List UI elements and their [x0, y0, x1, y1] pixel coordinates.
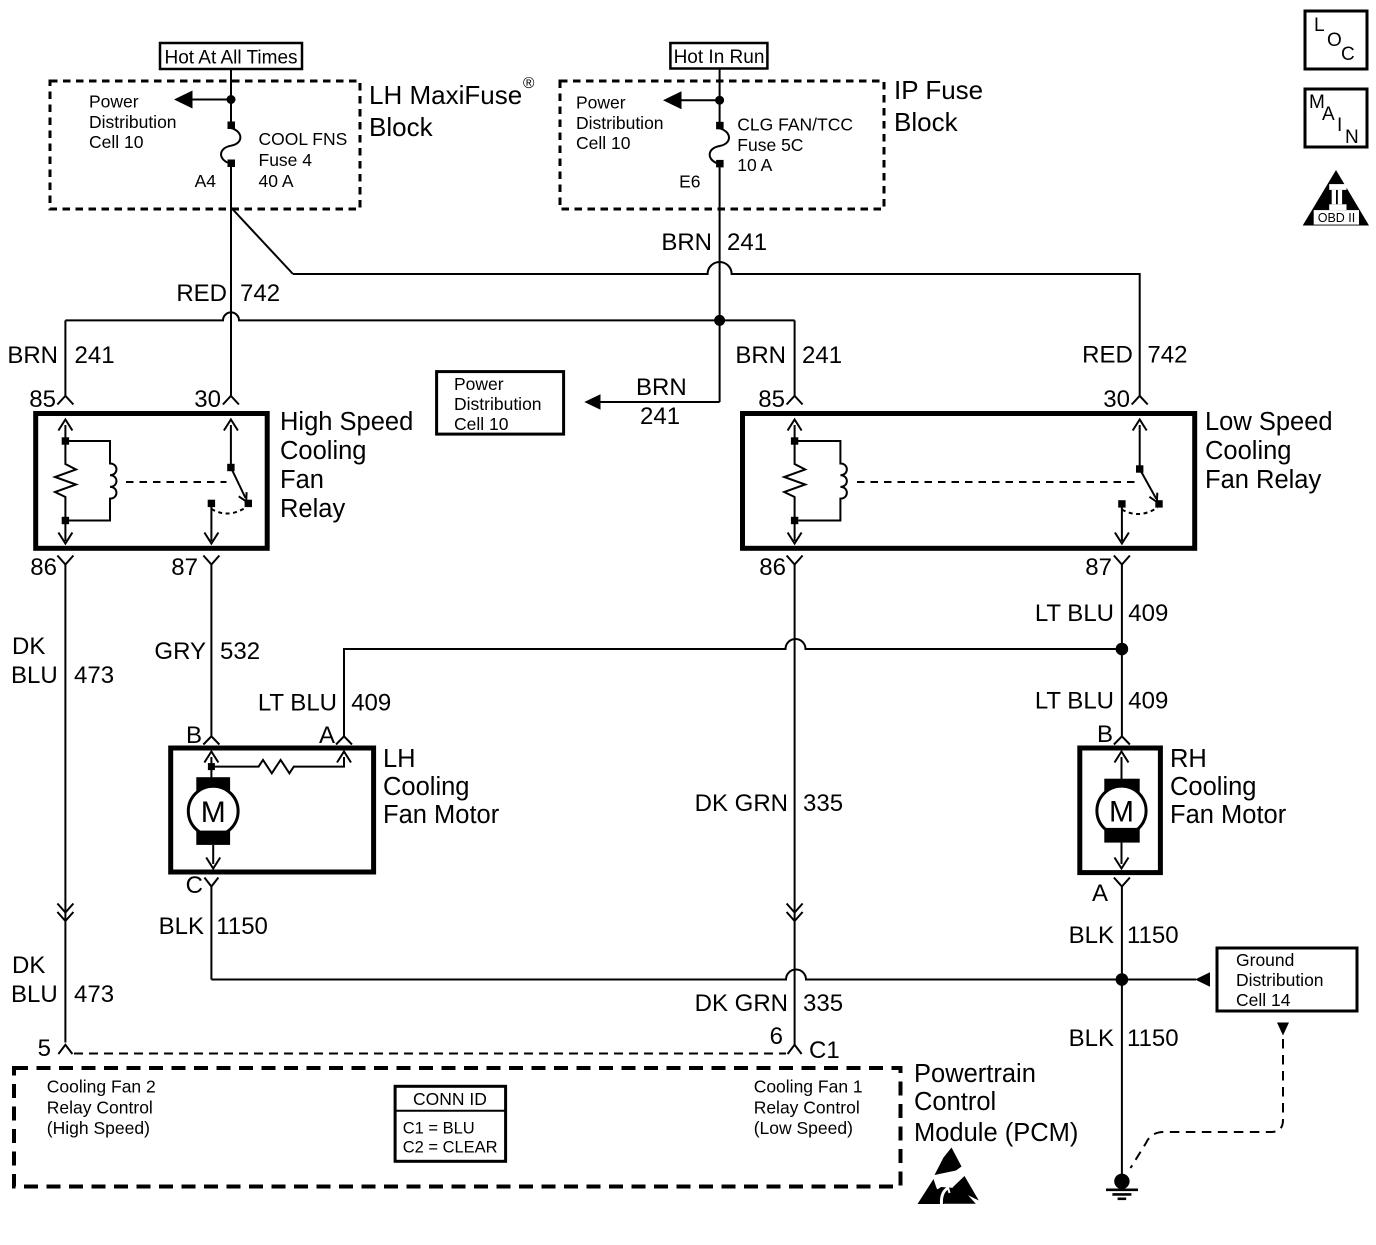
svg-text:Cooling: Cooling [383, 773, 469, 801]
svg-text:Fan Motor: Fan Motor [1170, 801, 1287, 829]
LS relay switch pivot square [1136, 465, 1143, 472]
wire GRY 532 from HS relay pin 87 to LH motor pin B [210, 565, 212, 737]
wire label DK GRN 335 (lower) [695, 990, 843, 1017]
HS relay switch contact square (arm end) [245, 500, 252, 507]
connector pin B LH motor [203, 736, 219, 744]
svg-text:(High Speed): (High Speed) [47, 1118, 150, 1138]
arrow into Power Distribution Cell 10 box [584, 394, 600, 410]
motor M1 LH Cooling Fan Motor box [171, 748, 374, 872]
svg-text:A: A [319, 722, 335, 749]
arrow to Power Distribution Cell 10 (LH block) [174, 91, 231, 109]
svg-text:Cooling: Cooling [1205, 437, 1291, 465]
LH motor terminal arrow pin C [206, 845, 220, 869]
label box Hot At All Times [160, 43, 302, 69]
LH motor armature circle [188, 786, 238, 836]
svg-text:1150: 1150 [1127, 922, 1179, 949]
svg-text:742: 742 [1147, 342, 1187, 369]
svg-text:Ground: Ground [1236, 950, 1294, 970]
wire label DK GRN 335 (upper) [695, 790, 843, 817]
LH motor brush bottom [196, 831, 230, 845]
PCM pin function text Cooling Fan 2 Relay Control (High Speed) [47, 1076, 156, 1138]
connector pin 30 HS relay [223, 396, 239, 405]
svg-text:1150: 1150 [216, 913, 268, 940]
svg-text:Relay Control: Relay Control [754, 1097, 860, 1117]
svg-text:Fan Relay: Fan Relay [1205, 466, 1321, 494]
wire label BRN 241 (far left) [7, 342, 114, 369]
svg-text:Relay: Relay [280, 495, 345, 523]
off-page double chevron on DK BLU wire [57, 904, 73, 922]
svg-text:LT BLU: LT BLU [258, 690, 337, 717]
node junction dot on IP feed wire [715, 96, 724, 105]
wire BLK 1150 from LH motor pin C [210, 887, 212, 980]
svg-text:241: 241 [802, 342, 842, 369]
svg-text:473: 473 [74, 662, 114, 689]
svg-text:Fan Motor: Fan Motor [383, 801, 500, 829]
svg-text:CLG FAN/TCC: CLG FAN/TCC [737, 115, 853, 135]
svg-text:409: 409 [1128, 688, 1168, 715]
svg-text:E6: E6 [679, 172, 700, 192]
svg-text:241: 241 [75, 342, 115, 369]
HS relay switch contact square (pin 87) [208, 500, 215, 507]
svg-text:LH: LH [383, 745, 416, 773]
LS relay coil top node square [791, 437, 798, 444]
box Ground Distribution Cell 14 [1217, 948, 1357, 1011]
svg-text:A: A [1322, 104, 1335, 125]
svg-text:86: 86 [759, 554, 786, 581]
svg-text:Fuse 4: Fuse 4 [259, 150, 313, 170]
svg-text:Cooling: Cooling [280, 437, 366, 465]
node junction dot on LH feed wire [227, 95, 236, 104]
svg-text:M: M [1109, 796, 1134, 829]
svg-text:C2 = CLEAR: C2 = CLEAR [403, 1139, 498, 1157]
connector pin B RH motor [1114, 736, 1130, 744]
HS relay contact travel dashed arc [211, 507, 246, 514]
motor M2 RH Cooling Fan Motor box [1080, 748, 1161, 873]
svg-text:C: C [1341, 44, 1355, 65]
svg-text:Relay Control: Relay Control [47, 1097, 153, 1117]
LH motor internal resistor to pin A [211, 757, 344, 773]
wire label BRN 241 (middle) [735, 342, 842, 369]
svg-text:1150: 1150 [1127, 1025, 1179, 1052]
wire label DK BLU 473 (upper) [11, 633, 114, 689]
wire from Hot At All Times into fuse [230, 69, 232, 122]
svg-text:M: M [201, 796, 226, 829]
svg-text:®: ® [523, 75, 535, 92]
ground reference dashed leader with arrow [1131, 1023, 1290, 1169]
svg-text:IP Fuse: IP Fuse [894, 75, 983, 105]
svg-text:87: 87 [1085, 554, 1112, 581]
wire label DK BLU 473 (lower) [11, 952, 114, 1008]
LS relay switch terminal arrow (pin 87) [1115, 508, 1129, 544]
svg-text:DK GRN: DK GRN [695, 790, 788, 817]
svg-text:B: B [186, 722, 202, 749]
wire BRN 241 vertical below IP fuse [719, 167, 721, 402]
RH motor brush top [1104, 779, 1139, 794]
component name High Speed Cooling Fan Relay [280, 408, 413, 523]
wire label BLK 1150 (lower right) [1069, 1025, 1179, 1052]
svg-text:Hot In Run: Hot In Run [674, 47, 765, 68]
component name RH Cooling Fan Motor [1170, 745, 1287, 829]
LS relay switch common arrow (pin 30) [1133, 420, 1147, 466]
fuse value text CLG FAN/TCC Fuse 5C 10 A [737, 115, 853, 176]
text Power Distribution Cell 10 (LH block) [89, 92, 177, 153]
box Power Distribution Cell 10 [437, 372, 564, 435]
HS relay coil terminal arrow (pin 86) [58, 524, 72, 544]
IP Fuse Block dashed outline [560, 81, 884, 209]
connector pin C LH motor [204, 878, 218, 887]
svg-text:6: 6 [770, 1023, 783, 1050]
ground G101 symbol [1106, 1174, 1138, 1199]
svg-text:COOL FNS: COOL FNS [259, 129, 348, 149]
svg-text:RED: RED [1082, 342, 1133, 369]
svg-text:Cell 10: Cell 10 [454, 414, 509, 434]
wire RED 742 horizontal to right with hop over BRN wire [293, 262, 1140, 396]
off-page double chevron on DK GRN wire [787, 904, 803, 922]
node junction dot BLK 1150 [1116, 973, 1129, 986]
svg-text:DK: DK [12, 633, 45, 660]
svg-text:LT BLU: LT BLU [1035, 600, 1114, 627]
svg-text:C1: C1 [809, 1037, 840, 1064]
RH motor armature circle [1097, 786, 1146, 835]
wire label RED 742 (right) [1082, 342, 1187, 369]
wire label GRY 532 [154, 638, 260, 665]
svg-text:B: B [1097, 721, 1113, 748]
svg-text:Module (PCM): Module (PCM) [914, 1119, 1078, 1147]
svg-text:Cell 10: Cell 10 [576, 133, 631, 153]
svg-text:Low Speed: Low Speed [1205, 408, 1333, 436]
svg-text:Control: Control [914, 1088, 996, 1116]
HS relay coil winding branch [65, 441, 116, 521]
LH motor terminal arrow pin B [204, 752, 218, 767]
HS relay switch terminal arrow (pin 87) [204, 507, 218, 544]
module Powertrain Control Module (PCM) dashed box [14, 1068, 901, 1187]
PCM connector face dashed line [74, 1053, 786, 1055]
svg-text:5: 5 [38, 1035, 51, 1062]
LH motor stem [210, 770, 212, 786]
wire BRN 241 horizontal with hop over RED wire [65, 312, 794, 320]
wire BRN 241 drop to HS relay pin 85 [64, 320, 66, 395]
svg-text:Hot At All Times: Hot At All Times [164, 48, 297, 69]
connector pin A RH motor [1114, 878, 1130, 887]
svg-text:Cell 10: Cell 10 [89, 132, 144, 152]
HS relay armature dashed link [126, 481, 227, 483]
svg-text:BRN: BRN [7, 342, 58, 369]
svg-text:40 A: 40 A [259, 171, 294, 191]
svg-text:Cooling Fan 1: Cooling Fan 1 [754, 1076, 863, 1096]
svg-text:BRN: BRN [636, 374, 687, 401]
connector pin 87 HS relay [203, 556, 219, 565]
fuse CLG FAN/TCC Fuse 5C 10 A (symbol) [710, 122, 729, 168]
node junction dot LT BLU 409 [1116, 643, 1129, 656]
svg-text:Cooling: Cooling [1170, 773, 1256, 801]
connector pin 6 PCM [788, 1045, 802, 1054]
wire DK GRN 335 from LS relay pin 86 down to PCM pin 6 [794, 565, 796, 1046]
module name Powertrain Control Module (PCM) [914, 1060, 1078, 1147]
svg-text:Powertrain: Powertrain [914, 1060, 1036, 1088]
wire RED 742 vertical from fuse A4 to HS relay pin 30 [230, 167, 232, 396]
svg-text:RH: RH [1170, 745, 1207, 773]
wire label LT BLU 409 (above junction) [1035, 600, 1169, 627]
svg-text:Cooling Fan 2: Cooling Fan 2 [47, 1076, 156, 1096]
LS relay resistor (coil suppression) [784, 444, 805, 517]
wire label LT BLU 409 (above RH motor) [1035, 688, 1169, 715]
LS relay contact travel dashed arc [1122, 508, 1158, 515]
svg-text:CONN ID: CONN ID [413, 1089, 487, 1109]
connector pin 86 LS relay [787, 556, 803, 565]
svg-text:30: 30 [1103, 386, 1130, 413]
arrow to Ground Distribution Cell 14 [1195, 972, 1210, 986]
svg-text:N: N [1345, 127, 1359, 148]
svg-text:BLU: BLU [11, 981, 58, 1008]
svg-text:Distribution: Distribution [454, 394, 542, 414]
component name LH Cooling Fan Motor [383, 745, 500, 829]
svg-text:335: 335 [803, 990, 843, 1017]
LS relay switch contact square (arm end) [1155, 500, 1162, 507]
connector pin 30 LS relay [1132, 396, 1148, 405]
LH motor brush top [196, 777, 230, 791]
relay K2 Low Speed Cooling Fan Relay box [743, 414, 1195, 549]
svg-text:Block: Block [369, 112, 434, 142]
wire BLK 1150 from RH motor pin A [1121, 887, 1123, 1175]
ESD sensitivity symbol [918, 1148, 979, 1205]
svg-text:LH MaxiFuse: LH MaxiFuse [369, 80, 522, 110]
wire LT BLU 409 from LS relay pin 87 down [1121, 565, 1123, 737]
connector pin 86 HS relay [57, 556, 73, 565]
wire label BLK 1150 (upper right) [1069, 922, 1179, 949]
svg-text:LT BLU: LT BLU [1035, 688, 1114, 715]
svg-text:O: O [1327, 30, 1342, 51]
connector pin 85 LS relay [787, 396, 803, 405]
svg-text:BRN: BRN [735, 342, 786, 369]
svg-text:241: 241 [640, 403, 680, 430]
svg-text:409: 409 [1128, 600, 1168, 627]
svg-text:BLK: BLK [1069, 1025, 1114, 1052]
LS relay switch arm with arrowhead [1140, 469, 1158, 502]
PCM pin function text Cooling Fan 1 Relay Control (Low Speed) [754, 1076, 863, 1138]
svg-text:BRN: BRN [661, 229, 712, 256]
HS relay switch common arrow (pin 30) [224, 420, 238, 465]
RH motor brush bottom [1104, 828, 1139, 843]
svg-text:C1 = BLU: C1 = BLU [403, 1119, 475, 1137]
relay K1 High Speed Cooling Fan Relay box [36, 414, 268, 549]
svg-text:(Low Speed): (Low Speed) [754, 1118, 853, 1138]
wire LT BLU 409 horizontal to LH motor pin A with hop over DK GRN [344, 639, 1122, 736]
svg-text:409: 409 [351, 690, 391, 717]
label box Hot In Run [670, 43, 767, 69]
svg-text:Distribution: Distribution [576, 113, 664, 133]
svg-text:L: L [1314, 15, 1325, 36]
svg-text:Power: Power [89, 92, 139, 112]
svg-text:I: I [1337, 115, 1342, 136]
wire BRN 241 branch to Power Distribution arrow [600, 401, 720, 403]
LS relay armature dashed link [857, 481, 1135, 483]
HS relay switch pivot square [227, 464, 234, 471]
svg-text:BLK: BLK [1069, 922, 1114, 949]
svg-text:DK: DK [12, 952, 45, 979]
text Power Distribution Cell 10 (IP block) [576, 93, 664, 154]
LH motor pin A arrow [337, 752, 351, 763]
svg-text:Block: Block [894, 107, 959, 137]
icon MAIN box [1305, 89, 1367, 148]
svg-text:87: 87 [171, 554, 198, 581]
wire label BRN 241 above/below arrow [636, 374, 687, 430]
wire from Hot In Run into fuse [719, 68, 721, 122]
RH motor terminal arrow pin B [1115, 752, 1129, 787]
HS relay resistor (coil suppression) [55, 444, 76, 517]
RH motor terminal arrow pin A [1115, 843, 1129, 869]
LH MaxiFuse Block title [369, 75, 535, 142]
wire label BRN 241 (top) [661, 229, 767, 256]
LH motor node square [208, 763, 215, 770]
node junction dot BRN 241 [714, 315, 725, 326]
wire BRN 241 drop to LS relay pin 85 [794, 320, 796, 395]
svg-text:241: 241 [727, 229, 767, 256]
svg-text:85: 85 [29, 386, 56, 413]
LH MaxiFuse Block dashed outline [50, 81, 360, 209]
arrow to Power Distribution Cell 10 (IP block) [663, 91, 720, 109]
icon LOC box [1305, 11, 1367, 69]
svg-text:86: 86 [30, 554, 57, 581]
svg-text:A4: A4 [195, 171, 217, 191]
svg-text:C: C [186, 872, 203, 899]
fuse value text COOL FNS Fuse 4 40 A [259, 129, 348, 191]
svg-text:BLU: BLU [11, 662, 58, 689]
svg-text:High Speed: High Speed [280, 408, 413, 436]
svg-text:BLK: BLK [159, 913, 204, 940]
svg-text:Fan: Fan [280, 466, 324, 494]
svg-text:335: 335 [803, 790, 843, 817]
IP Fuse Block title [894, 75, 983, 137]
connector pin 5 PCM [58, 1045, 72, 1054]
wire diagonal RED branch from fuse [231, 208, 293, 275]
svg-text:30: 30 [194, 386, 221, 413]
wire BLK 1150 horizontal with hop over DK GRN [211, 970, 1196, 980]
LS relay coil terminal arrow (pin 85) [788, 420, 802, 442]
svg-text:DK GRN: DK GRN [695, 990, 788, 1017]
svg-text:OBD II: OBD II [1318, 211, 1356, 225]
table CONN ID [395, 1086, 506, 1161]
fuse COOL FNS Fuse 4 40 A (symbol) [221, 122, 240, 168]
wire DK BLU 473 from HS relay pin 86 down to PCM pin 5 [64, 565, 66, 1043]
svg-text:473: 473 [74, 981, 114, 1008]
svg-text:Power: Power [576, 93, 626, 113]
wire label BLK 1150 (left) [159, 913, 268, 940]
LS relay coil bottom node square [791, 517, 798, 524]
connector pin A LH motor [336, 736, 352, 744]
LS relay switch contact square (pin 87) [1118, 500, 1125, 507]
HS relay switch arm with arrowhead [231, 468, 247, 502]
svg-text:A: A [1092, 880, 1108, 907]
component name Low Speed Cooling Fan Relay [1205, 408, 1333, 494]
HS relay coil top node square [62, 437, 69, 444]
svg-text:Cell 14: Cell 14 [1236, 990, 1291, 1010]
HS relay coil bottom node square [62, 517, 69, 524]
connector pin 85 HS relay [57, 396, 73, 405]
svg-text:GRY: GRY [154, 638, 206, 665]
svg-text:85: 85 [758, 386, 785, 413]
svg-text:Distribution: Distribution [1236, 970, 1324, 990]
LS relay coil terminal arrow (pin 86) [788, 524, 802, 544]
icon OBD II triangle [1303, 170, 1369, 226]
svg-text:Fuse 5C: Fuse 5C [737, 135, 803, 155]
connector pin 87 LS relay [1114, 556, 1130, 565]
svg-text:532: 532 [220, 638, 260, 665]
svg-text:Power: Power [454, 374, 504, 394]
svg-text:RED: RED [176, 280, 227, 307]
svg-text:742: 742 [240, 280, 280, 307]
wire label RED 742 (left) [176, 280, 280, 307]
svg-text:Distribution: Distribution [89, 112, 177, 132]
HS relay coil terminal arrow (pin 85) [58, 420, 72, 442]
wire label LT BLU 409 (above LH motor A) [258, 690, 391, 717]
LS relay coil winding branch [795, 441, 847, 521]
svg-text:10 A: 10 A [737, 155, 772, 175]
